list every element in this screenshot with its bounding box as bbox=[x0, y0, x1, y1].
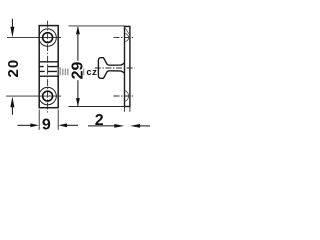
wire extension line top (29 dim) bbox=[69, 25, 125, 27]
dim 9 right arrow bbox=[59, 123, 79, 127]
node centerline top hole horizontal bbox=[7, 37, 61, 39]
hole top inner bbox=[43, 33, 53, 43]
plate front view outline bbox=[39, 26, 58, 108]
hole bottom outer bbox=[39, 87, 56, 104]
rib line 2 bbox=[39, 66, 58, 68]
hole bottom inner bbox=[43, 91, 53, 101]
side countersink chamfer top bbox=[125, 27, 129, 33]
dim 2 left arrow bbox=[88, 124, 124, 128]
dim 2 right arrow bbox=[130, 124, 150, 128]
svg-text:2: 2 bbox=[95, 112, 104, 129]
label 29 background bbox=[70, 61, 83, 80]
side countersink arcs bottom hole bbox=[125, 91, 129, 102]
watermark letters left bbox=[58, 67, 84, 75]
dim 9 extension right bbox=[57, 110, 59, 130]
side countersink arcs top hole bbox=[125, 34, 129, 42]
rib line 3 bbox=[39, 70, 58, 72]
node centerline bottom hole horizontal bbox=[6, 95, 61, 97]
wire extension line bottom (29 dim) bbox=[69, 106, 131, 108]
svg-text:9: 9 bbox=[42, 117, 51, 134]
dim 29 line with arrows bbox=[76, 26, 80, 106]
node centerline vertical (front view) bbox=[47, 21, 49, 113]
dim 2 extension right bbox=[129, 107, 131, 112]
node side hole centerline top bbox=[114, 37, 135, 39]
node knob centerline bbox=[95, 67, 135, 69]
rib line 4 bbox=[39, 75, 58, 77]
dim 9 left arrow bbox=[18, 123, 39, 127]
side plate outline bbox=[125, 26, 130, 106]
dim 20 bottom arrow bbox=[10, 97, 14, 115]
rib line 1 bbox=[39, 61, 58, 63]
svg-text:cz: cz bbox=[86, 67, 97, 78]
hole top outer bbox=[39, 29, 56, 46]
svg-text:20: 20 bbox=[5, 59, 22, 78]
node side hole centerline bottom bbox=[114, 95, 135, 97]
dim 20 top arrow bbox=[10, 19, 14, 38]
dim 9 extension left bbox=[38, 110, 40, 130]
dim 2 extension left bbox=[124, 107, 126, 112]
knob pin outline bbox=[98, 58, 124, 79]
